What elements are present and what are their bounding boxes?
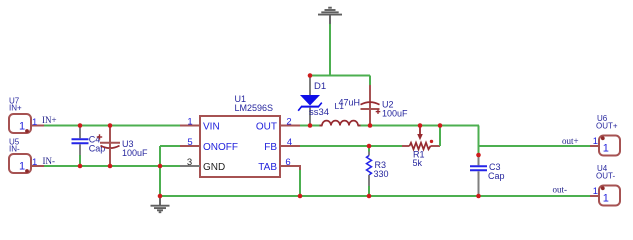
svg-text:Cap: Cap bbox=[488, 171, 505, 181]
ground symbol bbox=[151, 196, 170, 212]
wire vertical to ground rail bbox=[159, 146, 161, 196]
svg-text:TAB: TAB bbox=[258, 162, 277, 173]
capacitor U3 100uF (polarized) bbox=[97, 127, 148, 165]
svg-text:1: 1 bbox=[593, 186, 598, 197]
svg-text:OUT: OUT bbox=[256, 121, 277, 132]
svg-text:ss34: ss34 bbox=[309, 107, 329, 118]
svg-text:1: 1 bbox=[603, 143, 609, 155]
svg-text:47uH: 47uH bbox=[339, 97, 361, 107]
capacitor C4 bbox=[72, 127, 106, 166]
svg-text:1: 1 bbox=[603, 193, 609, 205]
junction D1 cathode node bbox=[308, 123, 313, 128]
wire OUT row left bbox=[300, 125, 322, 127]
svg-text:5: 5 bbox=[187, 137, 192, 148]
junction R1 wiper node bbox=[418, 123, 423, 128]
svg-text:IN+: IN+ bbox=[42, 115, 57, 125]
wire IN- row bbox=[44, 165, 180, 167]
svg-text:OUT+: OUT+ bbox=[596, 122, 618, 131]
svg-text:IN+: IN+ bbox=[9, 103, 22, 112]
svg-text:6: 6 bbox=[285, 157, 290, 168]
junction U3 top node bbox=[108, 123, 113, 128]
pin 1 VIN bbox=[180, 116, 200, 127]
svg-text:5k: 5k bbox=[413, 158, 423, 168]
wire top horizontal node bbox=[310, 75, 371, 77]
junction ground rail node bbox=[158, 194, 163, 199]
junction R1 right node bbox=[438, 123, 443, 128]
svg-text:1: 1 bbox=[19, 161, 25, 173]
svg-text:1: 1 bbox=[19, 121, 25, 133]
svg-text:ONOFF: ONOFF bbox=[203, 142, 238, 153]
IC U1 LM2596S regulator body bbox=[200, 94, 280, 177]
junction GND wire node bbox=[158, 164, 163, 169]
svg-text:GND: GND bbox=[203, 162, 225, 173]
junction C4 bottom node bbox=[78, 164, 83, 169]
pin 2 OUT bbox=[280, 117, 300, 128]
svg-text:D1: D1 bbox=[314, 81, 326, 92]
junction C3 top node bbox=[476, 153, 481, 158]
svg-text:1: 1 bbox=[187, 116, 192, 127]
wire FB row bbox=[300, 145, 402, 147]
pin 5 ONOFF bbox=[180, 137, 200, 148]
svg-text:100uF: 100uF bbox=[382, 109, 408, 119]
svg-text:OUT-: OUT- bbox=[596, 172, 615, 181]
wire power stem vertical bbox=[329, 24, 331, 76]
pin 3 GND bbox=[180, 157, 200, 168]
connector U4 OUT- bbox=[553, 164, 621, 206]
diode D1 ss34 (schottky) bbox=[298, 76, 329, 126]
capacitor C3 bbox=[470, 156, 505, 195]
inductor L1 47uH bbox=[320, 97, 361, 125]
svg-text:1: 1 bbox=[32, 117, 37, 128]
connector U7 IN+ bbox=[9, 97, 57, 134]
svg-text:2: 2 bbox=[286, 117, 291, 128]
junction R3 top node bbox=[367, 144, 372, 149]
svg-text:FB: FB bbox=[264, 142, 277, 153]
wire bottom rail bbox=[160, 195, 590, 197]
svg-text:100uF: 100uF bbox=[122, 148, 148, 158]
svg-text:out-: out- bbox=[553, 185, 568, 195]
junction C3 bottom node bbox=[476, 194, 481, 199]
pin 6 TAB bbox=[280, 157, 300, 171]
svg-text:LM2596S: LM2596S bbox=[235, 103, 274, 113]
wire U2 top stub bbox=[369, 76, 371, 86]
svg-text:1: 1 bbox=[32, 157, 37, 168]
svg-text:IN-: IN- bbox=[43, 156, 56, 166]
junction U2 bottom node bbox=[368, 123, 373, 128]
junction D1 anode node bbox=[308, 73, 313, 78]
connector U5 IN- bbox=[9, 138, 55, 174]
wire TAB drop bbox=[299, 170, 301, 196]
svg-text:1: 1 bbox=[593, 136, 598, 147]
svg-text:IN-: IN- bbox=[9, 144, 20, 153]
capacitor U2 100uF (polarized) bbox=[361, 85, 409, 126]
pin 4 FB bbox=[280, 137, 300, 148]
svg-text:330: 330 bbox=[374, 169, 389, 179]
wire OUT row right of coil bbox=[358, 125, 479, 127]
power bar symbol (top net) bbox=[318, 8, 342, 25]
svg-text:out+: out+ bbox=[562, 136, 579, 146]
junction U3 bottom node bbox=[108, 164, 113, 169]
wire out rail down to C3 bbox=[478, 126, 480, 156]
junction R3 bottom node bbox=[367, 194, 372, 199]
wire pin5 to junction bbox=[160, 145, 180, 147]
svg-text:Cap: Cap bbox=[89, 143, 106, 153]
rheostat R1 5k bbox=[402, 126, 440, 169]
junction C4 top node bbox=[78, 123, 83, 128]
svg-text:VIN: VIN bbox=[203, 121, 220, 132]
svg-text:4: 4 bbox=[287, 137, 292, 148]
junction TAB rail node bbox=[298, 194, 303, 199]
wire out+ row bbox=[479, 145, 591, 147]
connector U6 OUT+ bbox=[562, 114, 620, 156]
wire IN+ row bbox=[44, 125, 180, 127]
resistor R3 330 bbox=[367, 146, 389, 196]
svg-text:3: 3 bbox=[187, 157, 192, 168]
